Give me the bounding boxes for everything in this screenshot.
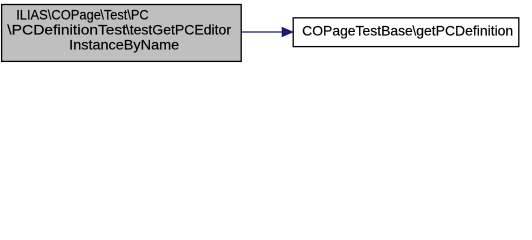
node Node2: COPageTestBase\getPCDefinition (called function, white box) [293,18,519,47]
svg-text:\Test\PC: \Test\PC [100,6,148,22]
svg-text:\PCDefinitionTest: \PCDefinitionTest [7,22,126,38]
svg-text:\getPCDefinition: \getPCDefinition [412,22,513,38]
node Node1: ILIAS\COPage\Test\PC\PCDefinitionTest\testGetPCEditorInstanceByName (current function, grey filled box) [2,5,242,62]
svg-text:InstanceByName: InstanceByName [69,37,179,53]
svg-text:ILIAS\COPage: ILIAS\COPage [16,6,101,22]
edge Node1->Node2: call arrow (midnightblue) [242,28,293,37]
svg-text:COPageTestBase: COPageTestBase [302,22,413,38]
svg-text:\testGetPCEditor: \testGetPCEditor [126,22,232,38]
